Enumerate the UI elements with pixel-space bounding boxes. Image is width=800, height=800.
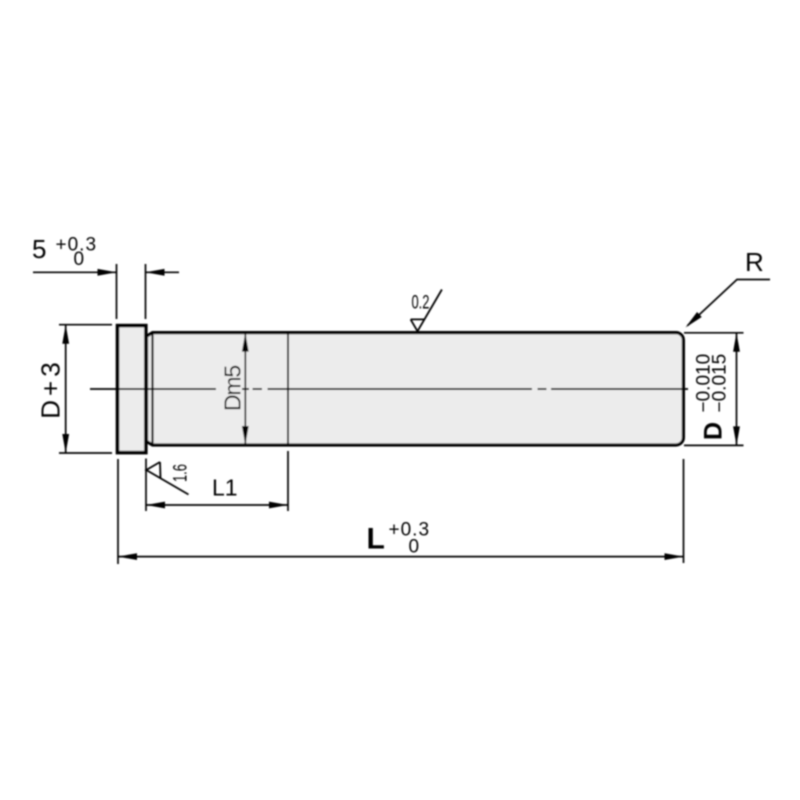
- svg-text:1.6: 1.6: [170, 464, 191, 482]
- svg-text:R: R: [745, 247, 764, 277]
- dimension L +0.3/0 (overall length): [118, 459, 684, 564]
- pin shaft outline: [147, 333, 684, 445]
- svg-text:D: D: [700, 422, 728, 440]
- shaft section boundary line (end of L1 fitted zone): [287, 333, 289, 445]
- svg-text:0: 0: [409, 537, 420, 558]
- svg-text:D+3: D+3: [36, 358, 66, 418]
- svg-text:L1: L1: [212, 475, 238, 501]
- dimension D+3 (head diameter): [59, 325, 112, 453]
- svg-text:5: 5: [32, 234, 46, 264]
- shaft chamfer edge line: [151, 333, 153, 445]
- svg-text:−0.015: −0.015: [710, 354, 731, 413]
- leader R (corner radius callout): [688, 280, 771, 326]
- surface finish symbol 0.2 (on shaft top): [411, 290, 442, 332]
- dimension L1 (fitted length): [146, 451, 288, 511]
- svg-text:Dm5: Dm5: [220, 366, 246, 411]
- svg-text:L: L: [367, 523, 385, 556]
- pin head outline: [118, 326, 146, 453]
- dimension Dm5 (shaft fitted diameter): [244, 333, 246, 445]
- svg-text:0.2: 0.2: [412, 292, 430, 313]
- center line: [90, 388, 688, 390]
- dimension 5 +0.3/0 (head thickness): [33, 264, 179, 319]
- svg-text:0: 0: [74, 249, 85, 270]
- dimension D -0.010/-0.015 (tip diameter tolerance): [684, 333, 744, 446]
- surface finish symbol 1.6 (on head seating face): [146, 462, 188, 495]
